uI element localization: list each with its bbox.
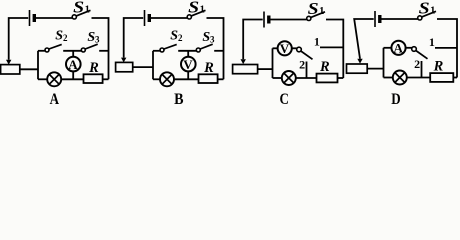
rheostat box <box>116 62 133 71</box>
svg-text:1: 1 <box>429 35 435 49</box>
svg-text:A: A <box>50 91 60 105</box>
rheostat slider arrow <box>6 60 11 65</box>
svg-text:A: A <box>68 57 78 72</box>
wire branch to lamp <box>384 77 393 79</box>
selector switch blade <box>301 51 313 59</box>
resistor R box <box>430 73 453 82</box>
wire battery to switch S1 <box>381 18 417 20</box>
wire lamp to resistor R <box>407 77 430 79</box>
meter top stub <box>187 51 189 57</box>
svg-text:C: C <box>280 91 289 105</box>
wire branch to lamp <box>153 78 160 80</box>
terminal 1 wire <box>320 46 343 48</box>
terminal 1 wire <box>435 47 457 49</box>
selector switch common contact <box>297 47 302 52</box>
svg-text:1: 1 <box>430 5 435 16</box>
selector switch blade <box>416 51 428 59</box>
svg-text:D: D <box>391 91 400 105</box>
resistor R box <box>199 74 218 83</box>
svg-text:R: R <box>203 60 214 76</box>
meter bottom stub <box>187 71 189 79</box>
switch S3 <box>81 48 85 52</box>
wire rheostat to branch node <box>133 66 153 68</box>
wire rheostat to branch node <box>258 68 273 70</box>
wire resistor to right rail <box>218 78 224 80</box>
branch vertical wire <box>37 51 39 80</box>
svg-text:2: 2 <box>178 33 183 43</box>
wire lamp to resistor R <box>296 77 317 79</box>
wire branch to meter <box>384 47 392 49</box>
svg-text:R: R <box>88 60 99 76</box>
switch S2 <box>160 48 164 52</box>
wire rheostat to branch node <box>367 68 383 70</box>
wire battery to switch S1 <box>151 17 187 19</box>
ammeter A <box>66 57 81 72</box>
lamp <box>160 72 174 86</box>
wire resistor to right rail <box>453 77 457 79</box>
rheostat box <box>347 64 368 73</box>
meter top stub <box>72 51 74 57</box>
wire S2 to S3 with meter junction <box>63 50 81 52</box>
svg-text:S: S <box>73 0 84 17</box>
wire S3 to right rail <box>214 50 223 52</box>
wire branch to lamp <box>38 78 47 80</box>
branch vertical wire <box>152 51 154 80</box>
wire lamp to resistor R <box>61 78 83 80</box>
wire top-left and left rail <box>354 19 374 59</box>
wire resistor to right rail <box>338 77 344 79</box>
battery cell plates <box>263 12 265 28</box>
svg-text:S: S <box>419 0 430 18</box>
wire S1 to top-right corner and right rail <box>326 20 343 79</box>
wire top-left and left rail <box>9 18 29 60</box>
wire S2 to S3 with meter junction <box>178 50 196 52</box>
wire meter to selector contact <box>292 47 297 49</box>
rheostat slider arrow <box>241 59 246 64</box>
svg-text:3: 3 <box>210 35 215 45</box>
wire lamp to resistor R <box>174 78 199 80</box>
wire meter to selector contact <box>406 47 412 49</box>
switch S1 <box>307 16 311 20</box>
wire branch to switch S2 <box>153 50 160 52</box>
voltmeter V <box>278 41 292 55</box>
switch S1 <box>418 16 422 20</box>
wire rheostat to branch node <box>20 68 38 70</box>
wire S3 to right rail <box>99 50 108 52</box>
svg-text:A: A <box>394 41 404 56</box>
selector switch common contact <box>412 47 417 52</box>
resistor R box <box>84 74 103 83</box>
terminal 2 stub <box>421 61 423 78</box>
wire S1 to top-right corner and right rail <box>207 18 224 79</box>
svg-text:1: 1 <box>319 6 324 17</box>
lamp <box>393 71 407 85</box>
switch S2 <box>45 48 49 52</box>
wire battery to switch S1 <box>270 19 306 21</box>
svg-text:B: B <box>174 91 184 105</box>
wire branch to meter <box>273 47 278 49</box>
battery cell plates <box>29 10 31 26</box>
rheostat box <box>1 65 20 74</box>
lamp <box>47 72 61 86</box>
switch S1 <box>187 15 191 19</box>
wire branch to lamp <box>273 77 282 79</box>
svg-text:2: 2 <box>414 57 420 71</box>
rheostat slider arrow <box>357 59 362 64</box>
svg-text:V: V <box>183 57 193 72</box>
wire top-left and left rail <box>124 18 144 58</box>
battery cell plates <box>374 11 376 27</box>
voltmeter V <box>181 57 196 72</box>
meter bottom stub <box>72 71 74 79</box>
svg-text:S: S <box>188 0 199 17</box>
wire S1 to top-right corner and right rail <box>92 18 109 79</box>
wire top-left and left rail <box>243 20 263 60</box>
svg-text:R: R <box>319 59 330 75</box>
svg-text:1: 1 <box>85 4 90 15</box>
svg-text:S: S <box>308 0 319 18</box>
svg-text:2: 2 <box>63 33 68 43</box>
wire S1 to top-right corner and right rail <box>437 19 457 78</box>
terminal 2 stub <box>306 62 308 79</box>
svg-text:2: 2 <box>299 57 305 71</box>
svg-text:1: 1 <box>200 4 205 15</box>
lamp <box>282 71 296 85</box>
switch S3 <box>196 48 200 52</box>
svg-text:1: 1 <box>314 35 320 49</box>
wire branch to switch S2 <box>38 50 45 52</box>
switch S1 <box>72 15 76 19</box>
resistor R box <box>317 74 338 83</box>
rheostat slider arrow <box>121 58 126 63</box>
branch vertical wire <box>272 48 274 78</box>
rheostat box <box>233 65 258 74</box>
svg-text:R: R <box>433 59 444 75</box>
wire battery to switch S1 <box>36 17 72 19</box>
ammeter A <box>391 41 405 55</box>
branch vertical wire <box>383 48 385 78</box>
svg-text:3: 3 <box>95 35 100 45</box>
wire resistor to right rail <box>103 78 109 80</box>
svg-text:V: V <box>280 41 290 56</box>
battery cell plates <box>144 10 146 26</box>
